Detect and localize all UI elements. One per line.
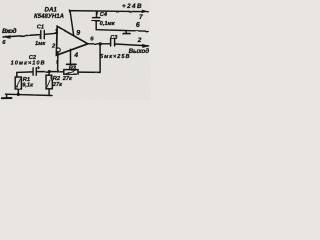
svg-text:0,1мк: 0,1мк [100, 21, 116, 27]
svg-text:9,1к: 9,1к [22, 82, 34, 88]
svg-text:С4: С4 [100, 12, 108, 18]
svg-text:6: 6 [136, 22, 140, 29]
svg-text:9: 9 [76, 30, 80, 37]
svg-text:К548УН1А: К548УН1А [34, 14, 64, 20]
svg-text:7: 7 [139, 14, 143, 21]
svg-text:С3: С3 [110, 35, 118, 41]
svg-text:1: 1 [55, 29, 58, 35]
svg-text:4: 4 [73, 52, 78, 59]
svg-text:С1: С1 [37, 25, 44, 31]
svg-text:2: 2 [137, 37, 142, 44]
svg-text:R3: R3 [69, 66, 77, 72]
svg-text:Выход: Выход [129, 48, 150, 55]
svg-text:27к: 27к [62, 76, 73, 82]
svg-text:Вход: Вход [2, 27, 17, 35]
svg-text:DA1: DA1 [45, 6, 58, 13]
svg-text:1мк: 1мк [35, 41, 46, 47]
svg-text:27к: 27к [52, 82, 63, 88]
svg-text:5мк×25В: 5мк×25В [100, 54, 130, 60]
svg-text:+24В: +24В [122, 3, 142, 10]
